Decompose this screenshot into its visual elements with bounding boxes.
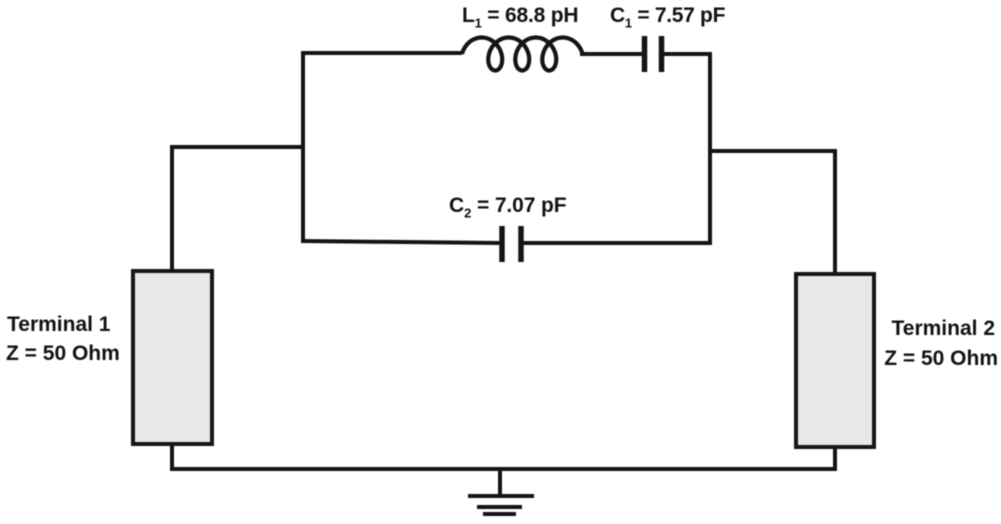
svg-text:Terminal 1: Terminal 1 [7,313,111,336]
svg-text:Z = 50 Ohm: Z = 50 Ohm [6,342,120,365]
svg-text:C2 = 7.07 pF: C2 = 7.07 pF [449,194,567,221]
svg-text:Terminal 2: Terminal 2 [892,317,995,340]
svg-text:Z = 50 Ohm: Z = 50 Ohm [884,347,998,370]
svg-text:L1 = 68.8 pH: L1 = 68.8 pH [462,4,578,31]
svg-text:C1 = 7.57 pF: C1 = 7.57 pF [610,4,726,31]
